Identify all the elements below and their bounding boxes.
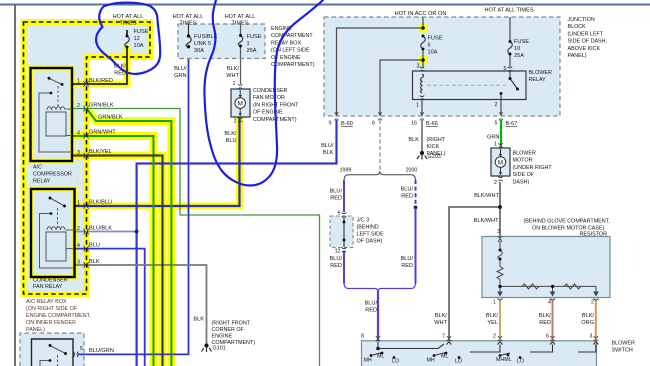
- svg-text:BLK/WHT: BLK/WHT: [474, 218, 499, 224]
- wire BLK/RED fuse12 to compressor relay pin1: [72, 30, 127, 84]
- svg-text:2: 2: [493, 334, 496, 340]
- svg-text:12: 12: [335, 249, 341, 255]
- svg-text:GRN: GRN: [174, 73, 186, 79]
- wire BLK/YEL resistor to switch: [499, 300, 501, 341]
- junction block bottom pin connectors: [335, 112, 504, 120]
- wire BLK/RED resistor to switch: [552, 300, 554, 341]
- svg-text:1: 1: [247, 41, 250, 47]
- svg-text:(UNDER LEFT: (UNDER LEFT: [568, 31, 604, 37]
- svg-text:HOT AT ALL: HOT AT ALL: [173, 14, 204, 20]
- svg-text:3: 3: [77, 150, 80, 156]
- svg-text:2: 2: [77, 103, 80, 109]
- svg-text:FAN MOTOR: FAN MOTOR: [253, 95, 285, 101]
- annotation loop around fuse 1 and condenser fan motor: [204, 0, 323, 186]
- svg-text:ENGINE: ENGINE: [212, 334, 233, 340]
- svg-text:SIDE OF: SIDE OF: [513, 172, 535, 178]
- svg-text:FUSE: FUSE: [247, 34, 262, 40]
- left page edge line: [14, 5, 16, 366]
- A/C relay box dashed border: [24, 22, 151, 294]
- svg-text:BLK/: BLK/: [539, 313, 552, 319]
- svg-text:ENGINE COMPARTMENT,: ENGINE COMPARTMENT,: [26, 313, 91, 319]
- svg-text:GRN/WHT: GRN/WHT: [89, 130, 116, 136]
- svg-text:2: 2: [494, 180, 497, 186]
- svg-text:RELAY BOX: RELAY BOX: [271, 40, 301, 46]
- svg-text:BLK: BLK: [323, 150, 334, 156]
- blower relay pin1 wire to B-66: [421, 100, 423, 117]
- yellow highlight: compressor relay glow: [31, 68, 73, 161]
- top window border line: [0, 4, 650, 6]
- svg-text:HOT IN ACC OR ON: HOT IN ACC OR ON: [395, 11, 447, 17]
- svg-text:25A: 25A: [247, 48, 257, 54]
- blower relay pin2 wire to B-67: [500, 100, 502, 117]
- svg-text:RED: RED: [330, 263, 342, 269]
- wire GRN B-67 to blower motor: [500, 120, 502, 148]
- wire BLU condenser pin4: [75, 249, 145, 366]
- svg-text:1: 1: [494, 142, 497, 148]
- svg-text:BLK/BLU: BLK/BLU: [89, 200, 112, 206]
- svg-text:25A: 25A: [514, 53, 524, 59]
- svg-text:6: 6: [428, 43, 431, 49]
- svg-text:(BEHIND GLOVE COMPARTMENT,: (BEHIND GLOVE COMPARTMENT,: [524, 219, 611, 225]
- fusible link 5 symbol: [186, 24, 191, 47]
- svg-text:CONDENSER: CONDENSER: [253, 88, 288, 94]
- svg-text:2: 2: [234, 119, 237, 125]
- junction block fill: [324, 17, 560, 116]
- svg-text:BLU/GRN: BLU/GRN: [89, 348, 114, 354]
- svg-text:16: 16: [411, 121, 417, 127]
- svg-text:BLK: BLK: [193, 317, 204, 323]
- year split fork brace: [344, 172, 416, 180]
- svg-text:30A: 30A: [194, 48, 204, 54]
- G101 ground: [204, 343, 208, 347]
- svg-text:B-67: B-67: [506, 121, 518, 127]
- blower switch top pin connectors: [376, 336, 598, 341]
- wire BLU/BLK condenser pin2 stub: [75, 231, 137, 233]
- wire BLK/ORG resistor to switch: [595, 300, 597, 341]
- svg-text:HOT AT ALL: HOT AT ALL: [113, 14, 144, 20]
- svg-text:10: 10: [514, 46, 520, 52]
- wire BLU/GRN fusible link to lower relay pin5: [78, 59, 189, 355]
- junction block internal wires: [337, 17, 424, 116]
- svg-text:B-66: B-66: [426, 121, 438, 127]
- svg-text:G101: G101: [213, 346, 226, 352]
- svg-text:RED: RED: [401, 263, 413, 269]
- svg-text:M: M: [498, 159, 503, 166]
- compressor relay pin connectors: [84, 81, 89, 268]
- yellow highlight: GRN/BLK path: [87, 109, 172, 366]
- yellow highlight: BLK/YEL path: [72, 156, 163, 366]
- svg-text:BLK: BLK: [408, 137, 419, 143]
- svg-text:10A: 10A: [134, 43, 144, 49]
- svg-text:GRN: GRN: [487, 135, 499, 141]
- lower relay pin5 connector: [73, 352, 78, 358]
- svg-text:M: M: [237, 100, 242, 107]
- condenser fan motor: [231, 84, 250, 122]
- svg-text:TIMES: TIMES: [179, 21, 196, 27]
- J/C 3 fill: [330, 216, 353, 248]
- svg-text:3: 3: [589, 334, 592, 340]
- wire GRN/BLK highlighted green: [87, 109, 172, 366]
- svg-text:COMPARTMENT): COMPARTMENT): [271, 62, 315, 68]
- svg-text:4: 4: [77, 243, 80, 249]
- svg-text:BLU: BLU: [226, 138, 237, 144]
- lower A/C relay box fill: [20, 333, 84, 366]
- wire BLU/RED merged to switch pin8: [377, 291, 379, 341]
- svg-text:BLK: BLK: [89, 259, 100, 265]
- svg-text:5: 5: [504, 66, 507, 72]
- svg-text:JUNCTION: JUNCTION: [568, 17, 595, 23]
- yellow highlight: BLK/BLU condenser fan path: [75, 117, 240, 206]
- svg-text:(BEHIND: (BEHIND: [357, 225, 379, 231]
- wire BLU/RED 1999 branch: [343, 180, 345, 284]
- engine compartment relay box dashed border: [178, 24, 265, 59]
- svg-text:ML: ML: [377, 354, 384, 360]
- svg-text:MHML: MHML: [496, 357, 512, 363]
- svg-text:2: 2: [591, 300, 594, 306]
- svg-text:BLU/: BLU/: [365, 301, 378, 307]
- svg-text:TIMES: TIMES: [231, 21, 248, 27]
- svg-text:BLU/BLK: BLU/BLK: [89, 226, 112, 232]
- svg-text:FUSIBLE: FUSIBLE: [194, 34, 218, 40]
- svg-text:LO: LO: [392, 359, 399, 365]
- svg-text:(ON RIGHT SIDE OF: (ON RIGHT SIDE OF: [26, 306, 78, 312]
- svg-text:1: 1: [493, 300, 496, 306]
- svg-text:RED: RED: [330, 196, 342, 202]
- svg-text:7: 7: [442, 334, 445, 340]
- A/C relay box (yellow dashed) light blue fill: [24, 22, 151, 294]
- yellow highlight: A/C relay dashed box band: [24, 22, 151, 294]
- svg-text:RESISTOR: RESISTOR: [580, 232, 608, 238]
- G203 ground: [420, 151, 424, 155]
- svg-text:YEL: YEL: [487, 320, 498, 326]
- fuse 10 wire and symbol: [509, 17, 511, 67]
- svg-text:4: 4: [77, 131, 80, 137]
- svg-text:MH: MH: [427, 358, 435, 364]
- svg-text:5: 5: [495, 121, 498, 127]
- svg-text:BLK/: BLK/: [224, 131, 237, 137]
- blower switch internals: [371, 342, 598, 356]
- svg-text:FUSE: FUSE: [428, 36, 443, 42]
- svg-text:BLK/YEL: BLK/YEL: [89, 149, 112, 155]
- svg-text:5: 5: [80, 346, 83, 352]
- svg-text:1: 1: [77, 201, 80, 207]
- wire GRN/WHT highlighted green: [72, 136, 154, 366]
- svg-text:OF ENGINE: OF ENGINE: [253, 110, 283, 116]
- svg-text:8: 8: [361, 334, 364, 340]
- resistor internals: [497, 236, 599, 300]
- svg-text:GRN/BLK: GRN/BLK: [89, 103, 114, 109]
- svg-text:BLK/WHT: BLK/WHT: [474, 193, 499, 199]
- engine compartment relay box fill: [178, 24, 265, 59]
- svg-text:WHT: WHT: [434, 320, 447, 326]
- svg-text:J/C 3: J/C 3: [357, 218, 370, 224]
- yellow ring junction dot top: [420, 25, 427, 32]
- wire BLK/WHT fuse1 to condenser motor: [240, 24, 242, 84]
- svg-text:BLK/: BLK/: [435, 313, 448, 319]
- lower A/C relay box dashed border: [20, 333, 84, 366]
- svg-text:HOT AT ALL: HOT AT ALL: [225, 14, 256, 20]
- svg-text:LO: LO: [455, 359, 462, 365]
- svg-text:BLK/: BLK/: [582, 313, 595, 319]
- svg-text:3: 3: [417, 64, 420, 70]
- wire BLK condenser pin3 to G101: [75, 265, 207, 344]
- wire BLK/YEL highlighted dark: [72, 156, 163, 366]
- svg-text:6: 6: [338, 211, 341, 217]
- svg-text:OF DASH): OF DASH): [357, 239, 383, 245]
- svg-text:2: 2: [77, 226, 80, 232]
- condenser fan relay box: [31, 189, 75, 277]
- svg-text:(RIGHT FRONT: (RIGHT FRONT: [212, 321, 251, 327]
- svg-text:ON INNER FENDER: ON INNER FENDER: [26, 320, 76, 326]
- svg-text:B-60: B-60: [341, 121, 353, 127]
- svg-text:LEFT SIDE: LEFT SIDE: [357, 232, 385, 238]
- blower switch box fill: [362, 341, 597, 366]
- svg-text:GRN/BLK: GRN/BLK: [98, 115, 123, 121]
- svg-text:BLOCK: BLOCK: [568, 24, 587, 30]
- svg-text:12: 12: [134, 36, 140, 42]
- svg-text:SWITCH: SWITCH: [612, 348, 633, 354]
- svg-text:1: 1: [416, 103, 419, 109]
- svg-text:PANEL): PANEL): [26, 327, 45, 333]
- svg-text:RELAY: RELAY: [529, 77, 547, 83]
- wire BLK B-66 to G203: [421, 120, 423, 151]
- svg-text:BLK/RED: BLK/RED: [89, 78, 113, 84]
- svg-text:4: 4: [548, 300, 551, 306]
- svg-text:RED: RED: [401, 194, 413, 200]
- svg-text:BLU/: BLU/: [401, 256, 414, 262]
- fuse 6 symbol: [421, 36, 426, 49]
- svg-text:LINK 5: LINK 5: [194, 41, 211, 47]
- junction dot fuse6 bottom: [421, 58, 425, 62]
- junction dot 2000 branch: [414, 206, 418, 210]
- svg-text:A/C: A/C: [33, 165, 42, 171]
- yellow highlight: GRN/WHT path: [72, 136, 154, 366]
- blower motor: [491, 143, 510, 181]
- svg-text:PANEL): PANEL): [568, 53, 587, 59]
- svg-text:6: 6: [546, 334, 549, 340]
- junction block dashed border: [324, 17, 560, 116]
- svg-text:COMPRESSOR: COMPRESSOR: [33, 172, 72, 178]
- svg-text:MH: MH: [364, 358, 372, 364]
- A/C compressor relay box: [31, 68, 73, 161]
- svg-text:FAN RELAY: FAN RELAY: [33, 284, 63, 290]
- svg-text:1: 1: [77, 79, 80, 85]
- junction dot fuse6 top: [421, 26, 425, 30]
- svg-text:(RIGHT: (RIGHT: [427, 137, 446, 143]
- junction dot BLU/BLK: [135, 230, 139, 234]
- annotation loop around fuse 12: [96, 3, 160, 74]
- J/C 3 dashed border: [330, 216, 353, 248]
- wire BLU/RED 2000 branch dashed: [415, 180, 417, 206]
- svg-text:BLU/: BLU/: [174, 66, 187, 72]
- svg-text:1999: 1999: [340, 168, 352, 174]
- blower relay: [413, 71, 527, 100]
- J/C 3 internals: [342, 212, 346, 217]
- fuse 12 symbol: [125, 36, 130, 47]
- svg-text:BLU/: BLU/: [321, 143, 334, 149]
- svg-text:RED: RED: [365, 308, 377, 314]
- svg-text:BLU: BLU: [89, 243, 100, 249]
- svg-text:ML: ML: [441, 354, 448, 360]
- svg-text:6: 6: [372, 121, 375, 127]
- svg-text:3: 3: [77, 260, 80, 266]
- wire GRN/BLK thin (pin2 to right, down, right, down): [72, 109, 320, 366]
- svg-text:10A: 10A: [428, 50, 438, 56]
- svg-text:2: 2: [495, 102, 498, 108]
- svg-text:BLU/: BLU/: [330, 189, 343, 195]
- resistor box fill: [482, 237, 610, 298]
- svg-text:A/C RELAY BOX: A/C RELAY BOX: [26, 299, 67, 305]
- svg-text:TIMES: TIMES: [119, 21, 136, 27]
- svg-text:FUSE: FUSE: [134, 29, 149, 35]
- svg-text:MOTOR: MOTOR: [513, 158, 533, 164]
- junction dot BLK/WHT: [498, 205, 502, 209]
- svg-text:BLU/: BLU/: [330, 256, 343, 262]
- svg-text:ABOVE KICK: ABOVE KICK: [568, 46, 601, 52]
- svg-text:G203: G203: [428, 154, 441, 160]
- yellow highlight: BLK/RED path: [72, 46, 127, 84]
- fuse 1 symbol: [238, 36, 243, 47]
- svg-text:BLOWER: BLOWER: [513, 151, 536, 157]
- yellow ring junction dot bottom: [420, 57, 427, 64]
- wire BLU/RED 2000 branch solid: [415, 208, 417, 284]
- year merge brace: [344, 284, 416, 292]
- svg-text:BLK/: BLK/: [486, 313, 499, 319]
- wire BLK/BLU highlighted blue: [75, 117, 240, 206]
- svg-text:SIDE OF DASH,: SIDE OF DASH,: [568, 39, 608, 45]
- svg-text:BLU/: BLU/: [401, 187, 414, 193]
- svg-text:RED: RED: [539, 320, 551, 326]
- svg-text:COMPARTMENT: COMPARTMENT: [271, 33, 313, 39]
- lower A/C relay inner box: [32, 339, 74, 366]
- svg-text:1: 1: [233, 81, 236, 87]
- svg-text:BLOWER: BLOWER: [612, 341, 635, 347]
- svg-text:KICK: KICK: [427, 144, 440, 150]
- wire 1999/2000 feed dashed: [379, 120, 381, 172]
- svg-text:9: 9: [329, 121, 332, 127]
- svg-text:WHT: WHT: [226, 73, 239, 79]
- yellow highlight: condenser relay glow: [31, 189, 75, 277]
- svg-text:BLK/: BLK/: [227, 66, 240, 72]
- svg-text:RELAY: RELAY: [33, 179, 51, 185]
- svg-text:BLOWER: BLOWER: [529, 70, 552, 76]
- svg-text:HOT AT ALL TIMES: HOT AT ALL TIMES: [484, 8, 533, 14]
- svg-text:DASH): DASH): [513, 179, 530, 185]
- svg-text:LO: LO: [517, 359, 524, 365]
- svg-text:ORG: ORG: [581, 320, 594, 326]
- svg-text:CONDENSER: CONDENSER: [33, 278, 68, 284]
- svg-text:3: 3: [497, 229, 500, 235]
- svg-text:CORNER OF: CORNER OF: [212, 327, 245, 333]
- svg-text:2000: 2000: [406, 168, 418, 174]
- wire BLK/WHT blower motor down + branch: [449, 182, 500, 341]
- svg-text:FUSE: FUSE: [514, 39, 529, 45]
- svg-text:(UNDER RIGHT: (UNDER RIGHT: [513, 165, 553, 171]
- wire BLU/BLK B-60 long run: [137, 120, 337, 366]
